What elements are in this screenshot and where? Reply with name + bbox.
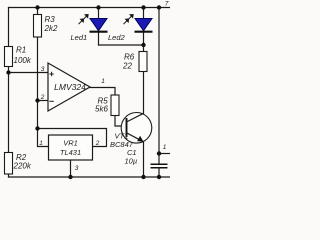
LED Led2 — [108, 19, 153, 43]
svg-text:VR1: VR1 — [63, 139, 78, 148]
junction dot right rail top — [157, 5, 161, 9]
svg-text:22: 22 — [122, 62, 132, 71]
svg-text:R6: R6 — [124, 53, 135, 62]
op-amp U1 LMV324 — [40, 63, 106, 111]
wire bottom rail — [9, 176, 171, 178]
svg-text:2: 2 — [40, 94, 45, 101]
junction dot R3 top — [35, 5, 39, 9]
wire led cathode bus — [99, 44, 144, 46]
junction dot VR1 pin3 bottom — [68, 175, 72, 179]
wire Led1 anode stub — [98, 8, 100, 19]
wire Led1 cathode stub — [98, 32, 100, 46]
wire collector to R6 — [143, 72, 145, 114]
wire left rail upper — [8, 8, 10, 47]
svg-text:2: 2 — [95, 140, 100, 147]
wire VR1 pin3 to bottom rail — [70, 160, 72, 177]
wire node1 stub right — [159, 153, 171, 155]
wire left rail lower — [8, 174, 10, 177]
junction dot pin2 — [35, 98, 39, 102]
svg-text:R1: R1 — [16, 46, 26, 55]
junction dot pin3 left — [6, 70, 10, 74]
resistor R3 — [34, 15, 58, 38]
junction dot Led2 top — [141, 5, 145, 9]
shunt regulator VR1 TL431 — [39, 135, 100, 172]
svg-text:TL431: TL431 — [60, 148, 81, 157]
wire op-amp pin2 input — [38, 100, 49, 102]
wire R3 bottom to VR1 pin1 — [38, 37, 49, 147]
wire C1 bottom lead — [158, 168, 160, 177]
wire Led2 anode stub — [143, 8, 145, 19]
svg-text:220k: 220k — [13, 162, 32, 171]
resistor R6 — [122, 52, 147, 72]
wire left rail middle — [8, 67, 10, 153]
svg-text:1: 1 — [39, 140, 43, 147]
svg-text:R3: R3 — [45, 15, 56, 24]
svg-text:100k: 100k — [14, 56, 32, 65]
wire emitter to bottom rail — [143, 142, 145, 177]
wire C1 top lead — [158, 154, 160, 164]
wire right rail — [158, 8, 160, 154]
wire op-amp output to R5 — [90, 88, 115, 96]
Led1 emission arrows — [79, 15, 89, 25]
junction dot led bus — [141, 43, 145, 47]
svg-text:1: 1 — [163, 144, 167, 151]
svg-text:3: 3 — [75, 165, 79, 172]
svg-text:2k2: 2k2 — [44, 24, 58, 33]
svg-text:1: 1 — [101, 78, 105, 85]
junction dot C1 bottom — [157, 175, 161, 179]
wire R6 top stub — [143, 45, 145, 52]
wire R5 to base — [115, 116, 127, 127]
Led2 emission arrows — [124, 15, 134, 25]
wire R3 top stub — [37, 8, 39, 15]
wire Led2 cathode stub — [143, 32, 145, 46]
svg-text:Led2: Led2 — [108, 33, 126, 42]
svg-text:Led1: Led1 — [71, 33, 88, 42]
svg-text:3: 3 — [41, 66, 45, 73]
svg-text:7: 7 — [165, 1, 169, 8]
capacitor C1 — [125, 148, 168, 168]
wire top rail — [9, 7, 171, 9]
resistor R5 — [95, 95, 119, 116]
junction dot emitter bottom — [141, 175, 145, 179]
svg-text:5k6: 5k6 — [95, 105, 108, 114]
LED Led1 — [71, 19, 108, 43]
svg-text:LMV324: LMV324 — [54, 82, 86, 92]
svg-text:10µ: 10µ — [125, 157, 138, 166]
junction dot Led1 top — [96, 5, 100, 9]
transistor VT1 BC847 — [110, 113, 152, 150]
resistor R1 — [5, 46, 32, 67]
wire VR1 pin2 route — [38, 129, 107, 147]
wire op-amp pin3 input — [9, 72, 49, 74]
resistor R2 — [5, 153, 32, 175]
junction dot node1 — [157, 151, 161, 155]
junction dot VR1 route — [35, 126, 39, 130]
